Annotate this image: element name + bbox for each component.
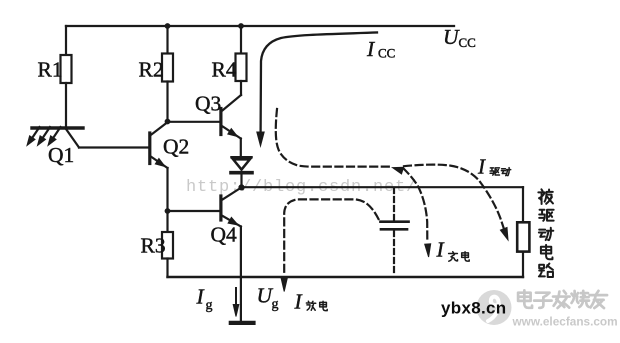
svg-text:Q3: Q3 — [195, 92, 221, 116]
svg-text:Q1: Q1 — [48, 143, 74, 167]
svg-text:I: I — [294, 290, 303, 314]
svg-text:g: g — [272, 297, 279, 312]
svg-text:R4: R4 — [212, 58, 237, 82]
svg-text:R3: R3 — [141, 234, 166, 258]
svg-text:I: I — [196, 285, 205, 309]
svg-text:g: g — [206, 298, 213, 313]
svg-text:U: U — [443, 25, 460, 49]
svg-text:I: I — [366, 37, 375, 61]
svg-text:I: I — [436, 238, 445, 262]
svg-text:Q4: Q4 — [211, 223, 238, 247]
svg-text:R1: R1 — [38, 58, 63, 82]
svg-text:CC: CC — [378, 46, 395, 61]
svg-text:Q2: Q2 — [163, 135, 189, 159]
svg-text:CC: CC — [459, 35, 476, 50]
svg-text:ybx8.cn: ybx8.cn — [441, 299, 506, 318]
svg-text:www.elecfans.com: www.elecfans.com — [512, 315, 618, 329]
svg-text:R2: R2 — [139, 58, 164, 82]
svg-text:I: I — [477, 155, 486, 179]
